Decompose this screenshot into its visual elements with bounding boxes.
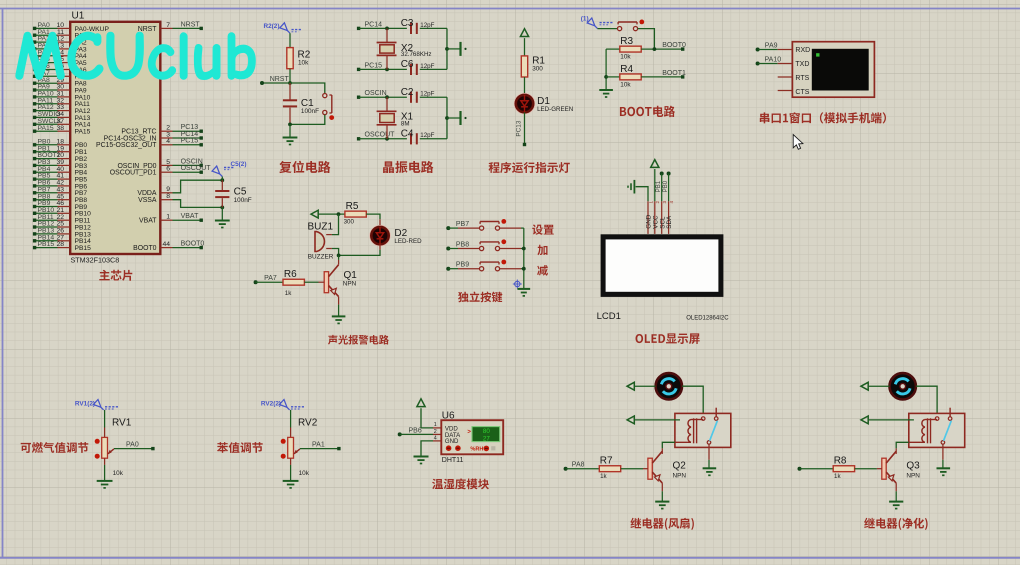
wire GND to side ground <box>636 187 648 202</box>
wire left pin PA3 pin 13 <box>36 48 58 50</box>
wire pot to ground <box>104 458 106 465</box>
power arrow at fan <box>627 382 634 390</box>
ground rail of buttons <box>523 228 525 289</box>
svg-text:CTS: CTS <box>795 89 809 96</box>
label 加 <box>537 245 547 255</box>
svg-text:8: 8 <box>166 193 170 200</box>
wire left pin PA10 pin 31 <box>36 96 58 98</box>
wire D2 to junction <box>379 244 381 250</box>
transistor Q2 NPN <box>648 458 652 479</box>
resistor R7 1k <box>599 466 620 472</box>
svg-text:10k: 10k <box>620 81 631 88</box>
power arrow above R1 <box>520 29 528 37</box>
resistor R3 10k <box>606 48 620 50</box>
wire left pin BOOT1 pin 20 <box>36 158 58 160</box>
relay RL (Q2) <box>675 413 731 447</box>
relay switch <box>715 408 717 417</box>
svg-text:PC15-OSC32_OUT: PC15-OSC32_OUT <box>96 142 157 149</box>
wire left pin PB15 pin 28 <box>36 247 58 249</box>
probe C5(2) <box>212 166 220 174</box>
transistor Q3 NPN <box>882 458 886 479</box>
label 苯值调节 <box>217 442 263 453</box>
svg-text:VBAT: VBAT <box>181 213 199 220</box>
svg-text:BUZZER: BUZZER <box>308 253 334 260</box>
wire junction to Q1 collector <box>338 255 340 260</box>
svg-text:RV1: RV1 <box>112 418 132 429</box>
svg-text:1k: 1k <box>600 473 607 480</box>
ground below Q2 <box>655 501 669 503</box>
capacitor C2 12pF <box>410 92 412 103</box>
wire power to R1 <box>524 38 526 56</box>
label 独立按键 <box>458 292 502 303</box>
wire C1 to ground <box>289 124 291 137</box>
boot button <box>618 21 637 23</box>
wire OSCIN pin 5 <box>160 164 172 166</box>
svg-text:%RH: %RH <box>470 447 483 453</box>
wire left pin PB10 pin 21 <box>36 212 58 214</box>
svg-text:OSCOUT_PD1: OSCOUT_PD1 <box>110 170 157 177</box>
ground below boot divider <box>599 89 613 91</box>
OLED pin stubs <box>647 201 649 234</box>
svg-text:4: 4 <box>669 201 674 204</box>
ground below RV1 <box>97 480 113 482</box>
svg-text:R5: R5 <box>346 201 359 212</box>
svg-text:32.768KHz: 32.768KHz <box>401 51 432 58</box>
svg-text:Q3: Q3 <box>906 461 920 472</box>
wire BUZ1 top pin to R5 node <box>332 214 339 235</box>
svg-text:12pF: 12pF <box>420 91 434 98</box>
svg-text:PB0: PB0 <box>663 180 669 192</box>
svg-text:PA10: PA10 <box>765 56 782 63</box>
wire PB7 to button <box>446 226 450 230</box>
power arrow at fan <box>861 382 868 390</box>
wire reset button to C1 bottom node <box>290 115 325 125</box>
capacitor C4 12pF <box>410 133 412 144</box>
svg-text:PA15: PA15 <box>75 129 91 136</box>
ground below RV2 <box>283 480 299 482</box>
svg-text:100nF: 100nF <box>234 197 252 204</box>
wire left pin PB9 pin 46 <box>36 206 58 208</box>
resistor R2 10k <box>289 33 291 47</box>
svg-text:PB15: PB15 <box>38 241 55 248</box>
svg-text:RXD: RXD <box>795 47 810 54</box>
wire wiper to PA0 <box>114 448 153 450</box>
wire left pin PB5 pin 41 <box>36 178 58 180</box>
wire PA8 to R7 <box>564 467 568 471</box>
svg-text:R2(2): R2(2) <box>264 23 280 30</box>
svg-text:PA7: PA7 <box>264 275 277 282</box>
wire left pin PB3 pin 39 <box>36 164 58 166</box>
fan/motor at Q3 relay <box>890 373 916 399</box>
reset button (vertical) <box>331 95 333 113</box>
wire left pin PA12 pin 33 <box>36 110 58 112</box>
potentiometer RV1 10k <box>104 410 106 428</box>
svg-text:NPN: NPN <box>906 473 920 480</box>
svg-text:PA9: PA9 <box>765 42 778 49</box>
crystal X2 32.768KHz <box>385 27 389 31</box>
wire BUZ1 bottom pin to collector node <box>332 249 339 256</box>
svg-text:R3: R3 <box>620 36 633 47</box>
svg-text:LCD1: LCD1 <box>597 311 621 322</box>
svg-text:PB8: PB8 <box>456 241 469 248</box>
wire NRST pin 7 <box>160 27 172 29</box>
wire relay switch to ground <box>708 444 710 460</box>
svg-text:(1): (1) <box>581 16 589 23</box>
wire PA7 to R6 <box>254 280 258 284</box>
label 可燃气值调节 <box>21 442 89 453</box>
ground below relay switch <box>703 467 717 469</box>
svg-text:PA8: PA8 <box>572 462 585 469</box>
label BOOT电路 <box>620 106 675 118</box>
svg-text:28: 28 <box>56 241 64 248</box>
potentiometer RV2 10k <box>290 410 292 428</box>
button PB7 <box>480 221 499 223</box>
svg-text:C6: C6 <box>401 59 414 70</box>
power arrow at alarm circuit <box>311 210 318 218</box>
wire PB6 to DATA pin 2 <box>398 432 402 436</box>
button PB9 <box>480 261 499 263</box>
wire PA9 to RXD <box>756 48 760 52</box>
wire R3 R4 left rail <box>605 49 607 90</box>
resistor R6 1k <box>283 279 304 285</box>
svg-text:10k: 10k <box>113 470 124 477</box>
wire left pin PA0 pin 10 <box>36 27 58 29</box>
svg-text:12pF: 12pF <box>420 132 434 139</box>
serial window screen <box>812 49 869 91</box>
svg-text:10k: 10k <box>620 54 631 61</box>
pin CTS stub <box>778 90 793 92</box>
svg-text:1k: 1k <box>285 290 292 297</box>
svg-text:PB7: PB7 <box>456 221 469 228</box>
node C5 top junction <box>220 178 224 182</box>
DHT11 buttons <box>446 445 452 451</box>
wire relay switch to ground <box>942 444 944 460</box>
wire R8 to Q3 base <box>855 468 877 470</box>
wire pot to ground <box>290 458 292 465</box>
svg-text:6: 6 <box>166 166 170 173</box>
wire fan to relay <box>682 386 703 413</box>
power arrow at relay coil <box>861 416 868 424</box>
ground below DHT11 <box>414 456 429 458</box>
svg-text:VSSA: VSSA <box>138 197 157 204</box>
wire left pin PB11 pin 22 <box>36 219 58 221</box>
wire left pin PB8 pin 45 <box>36 199 58 201</box>
wire VDDA pin 9 to C5 <box>160 192 172 194</box>
svg-text:Q2: Q2 <box>673 461 687 472</box>
svg-text:BUZ1: BUZ1 <box>308 222 334 233</box>
ground left of OLED <box>633 180 635 194</box>
svg-text:VBAT: VBAT <box>139 218 157 225</box>
wire Q2 emitter to ground <box>661 483 663 491</box>
wire left pin PA7 pin 17 <box>36 75 58 77</box>
label 设置 <box>532 224 554 234</box>
svg-text:C5(2): C5(2) <box>231 161 247 168</box>
wire wiper to PA1 <box>300 448 339 450</box>
svg-text:RV1(2): RV1(2) <box>75 400 95 407</box>
svg-text:PB15: PB15 <box>75 245 92 252</box>
wire left pin SWCLK pin 37 <box>36 123 58 125</box>
resistor R1 300 <box>521 56 527 77</box>
wire PC13 pin 2 <box>160 130 172 132</box>
svg-text:STM32F103C8: STM32F103C8 <box>71 256 120 265</box>
svg-text:OSCOUT: OSCOUT <box>365 132 396 139</box>
sheet border <box>0 8 1020 10</box>
wire PB9 to button <box>446 267 450 271</box>
power arrow above OLED VCC <box>651 160 659 168</box>
wire R7 to Q2 base <box>621 468 643 470</box>
wire power to R5 node <box>319 213 345 215</box>
svg-text:PC14: PC14 <box>365 21 383 28</box>
svg-text:12pF: 12pF <box>420 63 434 70</box>
resistor R8 1k <box>833 466 854 472</box>
svg-text:SDA: SDA <box>666 215 673 229</box>
wire PC14 pin 3 <box>160 137 172 139</box>
wire boot button to BOOT0 node <box>638 29 655 49</box>
svg-text:C2: C2 <box>401 87 414 98</box>
node collector junction <box>337 254 341 258</box>
svg-text:R7: R7 <box>600 455 613 466</box>
svg-text:LED-GREEN: LED-GREEN <box>537 106 573 113</box>
svg-text:NRST: NRST <box>181 21 201 28</box>
svg-text:NPN: NPN <box>673 473 687 480</box>
wire VSSA pin 8 to C5 <box>160 199 172 201</box>
ground terminal right of crystal <box>459 42 461 56</box>
node BOOT0 wire end <box>681 47 684 50</box>
wire VBAT pin 1 <box>160 219 172 221</box>
wire button to ground rail <box>500 248 521 250</box>
wire left pin PB12 pin 25 <box>36 226 58 228</box>
svg-text:7: 7 <box>166 22 170 29</box>
svg-text:PB9: PB9 <box>456 262 469 269</box>
svg-text:LED-RED: LED-RED <box>394 238 422 245</box>
svg-text:12pF: 12pF <box>420 22 434 29</box>
svg-text:300: 300 <box>344 219 355 226</box>
wire OSCOUT net <box>357 137 360 140</box>
svg-text:PC15: PC15 <box>181 138 199 145</box>
wire crystal right rail <box>446 97 448 139</box>
wire VDD pin 1 <box>421 408 433 428</box>
svg-text:10k: 10k <box>299 470 310 477</box>
svg-text:RTS: RTS <box>795 75 809 82</box>
svg-text:C5: C5 <box>234 187 247 198</box>
svg-text:27: 27 <box>483 436 490 443</box>
svg-text:8M: 8M <box>401 120 410 127</box>
wire left pin PB14 pin 27 <box>36 240 58 242</box>
svg-text:PA0: PA0 <box>126 442 139 449</box>
wire VCC <box>654 169 656 201</box>
label 温湿度模块 <box>432 478 489 489</box>
wire PA10 to TXD <box>756 62 760 66</box>
node PC13 wire end <box>523 143 526 146</box>
capacitor C1 100nF <box>289 83 291 100</box>
DHT11 green display <box>472 427 500 442</box>
svg-text:GND: GND <box>445 438 459 445</box>
ground below Q1 <box>332 315 346 317</box>
wire left pin PB1 pin 19 <box>36 151 58 153</box>
label 继电器(净化) <box>864 518 928 530</box>
svg-text:RV2(2): RV2(2) <box>261 400 281 407</box>
svg-text:PC15: PC15 <box>365 62 383 69</box>
svg-text:PB1: PB1 <box>656 180 662 192</box>
serial window box <box>792 42 874 97</box>
LCD1 OLED display body <box>601 234 724 297</box>
svg-text:OSCOUT: OSCOUT <box>181 165 212 172</box>
wire relay coil to Q collector <box>896 442 909 448</box>
svg-text:1: 1 <box>166 214 170 221</box>
wire left pin SWDIO pin 34 <box>36 116 58 118</box>
pin RTS stub <box>778 76 793 78</box>
wire PC15 net <box>357 68 360 71</box>
wire left pin PA1 pin 11 <box>36 34 58 36</box>
origin marker <box>515 281 520 286</box>
wire left pin PB0 pin 18 <box>36 144 58 146</box>
wire button to ground rail <box>500 268 521 270</box>
capacitor C5 100nF <box>221 180 223 190</box>
wire Q3 emitter to ground <box>895 483 897 491</box>
wire OSCOUT pin 6 <box>160 171 172 173</box>
button PB8 <box>480 241 499 243</box>
label 继电器(风扇) <box>630 518 694 530</box>
svg-text:38: 38 <box>56 125 64 132</box>
svg-text:PA1: PA1 <box>312 442 325 449</box>
wire left pin PA11 pin 32 <box>36 103 58 105</box>
wire left pin PA8 pin 29 <box>36 82 58 84</box>
node BOOT1 wire end <box>681 75 684 78</box>
wire PC15 pin 4 <box>160 144 172 146</box>
mouse cursor <box>793 135 803 150</box>
svg-text:300: 300 <box>532 65 543 72</box>
wire PB8 to button <box>446 247 450 251</box>
node R5/BUZ1 junction <box>337 212 341 216</box>
node NRST junction <box>288 81 292 85</box>
svg-text:1k: 1k <box>834 473 841 480</box>
svg-text:PB6: PB6 <box>409 427 422 434</box>
relay RL (Q3) <box>909 413 965 447</box>
U1 STM32F103C8 main chip body <box>70 22 160 254</box>
label 减 <box>537 265 548 276</box>
wire GND pin 4 <box>433 440 441 442</box>
MCUclub watermark <box>16 33 255 80</box>
chip title 主芯片 <box>99 270 132 281</box>
node C5 bottom junction <box>220 206 224 210</box>
label OLED显示屏 <box>636 333 700 344</box>
svg-text:BOOT0: BOOT0 <box>181 241 205 248</box>
wire left pin PA2 pin 12 <box>36 41 58 43</box>
svg-text:2: 2 <box>434 429 437 435</box>
svg-text:NRST: NRST <box>138 26 158 33</box>
wire left pin PB4 pin 40 <box>36 171 58 173</box>
wire left pin PB6 pin 42 <box>36 185 58 187</box>
crystal X1 8M <box>385 95 389 99</box>
LED D2 LED-RED <box>370 226 390 246</box>
svg-text:OSCIN: OSCIN <box>365 90 387 97</box>
power arrow at relay coil <box>627 416 634 424</box>
resistor R4 10k <box>606 76 620 78</box>
transistor Q1 NPN <box>324 272 328 293</box>
svg-text:R4: R4 <box>620 64 633 75</box>
wire BOOT0 pin 44 <box>160 247 172 249</box>
svg-text:PC13: PC13 <box>515 120 522 136</box>
resistor R5 300 <box>345 211 366 217</box>
LED D1 LED-GREEN <box>515 94 535 114</box>
wire left pin PB7 pin 43 <box>36 192 58 194</box>
svg-text:NRST: NRST <box>270 76 290 83</box>
svg-text:OLED12864I2C: OLED12864I2C <box>686 316 729 322</box>
svg-text:DHT11: DHT11 <box>442 457 464 464</box>
label 串口1窗口（模拟手机端） <box>760 112 886 123</box>
svg-text:2: 2 <box>655 201 660 204</box>
wire fan to relay <box>916 386 937 413</box>
svg-text:4: 4 <box>434 435 437 441</box>
wire probe to boot button <box>597 28 617 30</box>
wire left pin PA6 pin 16 <box>36 69 58 71</box>
svg-text:>: > <box>467 429 471 435</box>
svg-text:10k: 10k <box>298 60 309 67</box>
power arrow above DHT11 <box>417 399 425 407</box>
label 晶振电路 <box>383 161 433 173</box>
wire button to ground rail <box>500 227 521 229</box>
svg-text:100nF: 100nF <box>301 108 319 115</box>
wire left pin PA4 pin 14 <box>36 55 58 57</box>
wire SCL (PB1) <box>660 172 664 176</box>
svg-text:C3: C3 <box>401 18 414 29</box>
svg-text:BOOT0: BOOT0 <box>133 245 157 252</box>
wire PA11 to R8 <box>798 467 802 471</box>
svg-text:80: 80 <box>483 428 490 435</box>
ground below C1 <box>283 137 298 139</box>
wire left pin PA15 pin 38 <box>36 130 58 132</box>
svg-text:1: 1 <box>648 201 653 204</box>
node C1 bottom junction <box>288 123 292 127</box>
wire C5 to ground <box>221 207 223 220</box>
svg-text:3: 3 <box>662 201 667 204</box>
node BOOT0 junction <box>641 48 683 50</box>
svg-text:NPN: NPN <box>343 280 357 287</box>
label 程序运行指示灯 <box>489 162 570 173</box>
relay switch <box>949 408 951 417</box>
wire SDA (PB0) <box>667 172 671 176</box>
wire NRST node to reset button <box>290 83 325 93</box>
svg-text:PA15: PA15 <box>38 125 54 132</box>
wire Q1 emitter to ground <box>338 297 340 305</box>
ground below Q3 <box>889 501 903 503</box>
svg-text:U1: U1 <box>72 11 85 22</box>
ground below buttons <box>517 288 530 290</box>
wire NRST net label <box>262 82 290 84</box>
svg-text:R8: R8 <box>834 455 847 466</box>
ground terminal right of crystal <box>459 111 461 125</box>
ground below relay switch <box>937 467 951 469</box>
wire relay coil to Q collector <box>662 442 675 448</box>
wire left pin PA9 pin 30 <box>36 89 58 91</box>
wire R1 to D1 <box>524 77 526 95</box>
capacitor C6 12pF <box>410 64 412 75</box>
wire BOOT1 <box>641 76 683 78</box>
label 复位电路 <box>279 161 330 173</box>
wire OSCIN net <box>357 96 360 99</box>
svg-text:1: 1 <box>434 422 437 428</box>
wire R6 to Q1 base <box>304 281 318 283</box>
svg-text:C4: C4 <box>401 129 414 140</box>
svg-text:44: 44 <box>162 241 170 248</box>
svg-text:RV2: RV2 <box>298 418 318 429</box>
wire left pin PA5 pin 15 <box>36 62 58 64</box>
label 声光报警电路 <box>328 335 389 345</box>
capacitor C3 12pF <box>410 23 412 34</box>
svg-text:4: 4 <box>166 138 170 145</box>
ground below C5 <box>215 220 230 222</box>
wire D1 to PC13 net <box>524 112 526 144</box>
